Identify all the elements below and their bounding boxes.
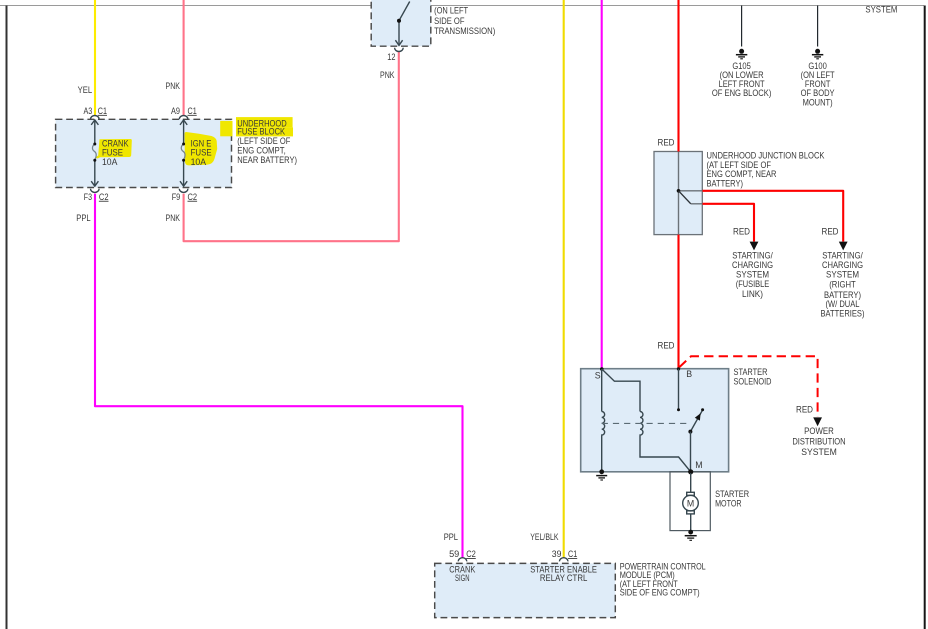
- red feed to starting/charging right battery: [679, 190, 703, 192]
- highlight underhood: [236, 117, 293, 127]
- red dashed feed to power distribution: [679, 356, 817, 417]
- svg-text:STARTING/: STARTING/: [822, 250, 863, 260]
- wire YEL/BLK to PCM 39: [563, 0, 565, 558]
- fuse block box: [56, 119, 232, 187]
- svg-text:DISTRIBUTION: DISTRIBUTION: [792, 437, 845, 447]
- svg-text:(ON LEFT: (ON LEFT: [434, 5, 469, 15]
- starter motor box: [670, 472, 710, 531]
- blade arrowhead: [695, 413, 701, 420]
- svg-text:OF ENG BLOCK): OF ENG BLOCK): [712, 88, 772, 98]
- hold-in coil lead: [601, 369, 603, 412]
- motor ground: [685, 530, 697, 541]
- svg-text:BATTERY): BATTERY): [707, 178, 744, 188]
- switch pivot dot: [397, 19, 401, 23]
- svg-text:YEL: YEL: [78, 85, 93, 95]
- junction diagonal tap: [679, 191, 691, 204]
- park/neutral switch internals: [395, 2, 409, 46]
- arrow to power distribution: [813, 417, 822, 426]
- highlight crank fuse: [96, 139, 132, 158]
- fuse CRANK: [91, 120, 98, 186]
- S terminal dot: [600, 367, 604, 371]
- svg-text:RED: RED: [733, 226, 750, 236]
- svg-text:PPL: PPL: [76, 213, 90, 223]
- svg-text:C1: C1: [568, 549, 577, 559]
- svg-text:RED: RED: [658, 341, 675, 351]
- underhood junction block box: [654, 152, 702, 235]
- svg-text:59: 59: [449, 549, 459, 559]
- pull-in coil branch: [602, 369, 640, 412]
- brush lower: [687, 511, 695, 514]
- svg-text:S: S: [595, 370, 601, 380]
- svg-text:C2: C2: [466, 549, 476, 559]
- svg-text:SIDE OF ENG COMPT): SIDE OF ENG COMPT): [620, 588, 700, 598]
- svg-text:B: B: [686, 369, 692, 379]
- connector arc A3: [91, 115, 100, 119]
- svg-text:SYSTEM: SYSTEM: [826, 269, 859, 279]
- moving contact blade: [690, 410, 702, 431]
- svg-text:LINK): LINK): [742, 289, 763, 299]
- park/neutral position switch box (on left side of transmission): [371, 0, 431, 46]
- motor lead lower: [690, 514, 692, 531]
- M terminal dot: [688, 469, 693, 474]
- wire PPL from F3 to PCM 59: [95, 194, 463, 558]
- coil 1 ground lead: [601, 435, 603, 470]
- ground wire G100: [817, 6, 819, 47]
- svg-text:12: 12: [387, 52, 395, 62]
- brush upper: [687, 492, 695, 495]
- svg-text:C1: C1: [188, 106, 197, 116]
- wire RED battery feed to solenoid B: [677, 0, 679, 152]
- connector arc pin 12: [395, 48, 404, 52]
- svg-text:PNK: PNK: [166, 213, 181, 223]
- motor circle: [683, 495, 699, 511]
- svg-text:(FUSIBLE: (FUSIBLE: [736, 279, 770, 289]
- svg-text:(LEFT SIDE OF: (LEFT SIDE OF: [237, 136, 291, 146]
- arrow to right battery: [839, 242, 848, 251]
- connector arc PCM 59: [458, 558, 467, 562]
- svg-text:C2: C2: [99, 192, 109, 202]
- svg-text:STARTER: STARTER: [734, 367, 768, 377]
- svg-text:SIDE OF: SIDE OF: [434, 16, 465, 26]
- ground G105 symbol: [736, 49, 747, 59]
- blade tip dot: [701, 408, 704, 411]
- svg-text:C1: C1: [98, 106, 107, 116]
- svg-text:RELAY CTRL: RELAY CTRL: [540, 573, 587, 583]
- wire PPL to solenoid S: [601, 0, 603, 369]
- wire PNK vertical to A9: [183, 0, 185, 115]
- page top rule: [0, 5, 924, 7]
- svg-text:MOUNT): MOUNT): [803, 97, 833, 107]
- connector arc F9: [179, 189, 188, 193]
- svg-text:A3: A3: [84, 106, 93, 116]
- connector arc A9: [179, 116, 188, 120]
- svg-text:(W/ DUAL: (W/ DUAL: [826, 299, 860, 309]
- B terminal dot: [677, 367, 680, 370]
- blade pivot dot: [688, 430, 692, 434]
- page left border: [6, 6, 8, 629]
- switch blade: [399, 2, 410, 21]
- svg-text:STARTING/: STARTING/: [732, 250, 773, 260]
- svg-text:39: 39: [552, 549, 562, 559]
- motor lead upper: [690, 473, 692, 492]
- coil 2 lower lead: [640, 435, 691, 471]
- svg-text:M: M: [687, 498, 694, 508]
- svg-text:YEL/BLK: YEL/BLK: [530, 532, 558, 542]
- svg-text:NEAR BATTERY): NEAR BATTERY): [237, 155, 297, 165]
- svg-text:BATTERIES): BATTERIES): [821, 309, 865, 319]
- svg-text:POWER: POWER: [804, 426, 834, 436]
- svg-text:(RIGHT: (RIGHT: [829, 279, 856, 289]
- svg-text:MOTOR: MOTOR: [715, 499, 742, 509]
- svg-text:10A: 10A: [191, 157, 207, 167]
- wire PNK from F9 to pin 12: [184, 52, 399, 242]
- svg-text:PNK: PNK: [380, 70, 395, 80]
- svg-text:PNK: PNK: [166, 81, 181, 91]
- solenoid ground: [596, 469, 607, 480]
- svg-text:SYSTEM: SYSTEM: [736, 269, 769, 279]
- svg-text:PPL: PPL: [444, 532, 458, 542]
- svg-text:RED: RED: [796, 405, 813, 415]
- highlighter marks: [96, 117, 293, 165]
- svg-text:F3: F3: [84, 192, 92, 202]
- PCM box: [435, 563, 616, 617]
- svg-text:A9: A9: [171, 106, 180, 116]
- svg-text:SIGN: SIGN: [455, 573, 470, 583]
- svg-text:CHARGING: CHARGING: [732, 260, 773, 270]
- svg-text:SOLENOID: SOLENOID: [734, 377, 772, 387]
- ground wire G105: [741, 6, 743, 47]
- svg-text:RED: RED: [822, 226, 839, 236]
- svg-text:F9: F9: [172, 192, 181, 202]
- coil 1: [602, 412, 605, 436]
- fuse IGN E: [180, 120, 187, 186]
- connector arc PCM 39: [559, 558, 568, 562]
- ground G100 symbol: [812, 49, 823, 59]
- svg-text:SYSTEM: SYSTEM: [801, 447, 837, 457]
- svg-text:FUSE: FUSE: [102, 147, 123, 157]
- svg-text:C2: C2: [188, 192, 198, 202]
- svg-text:STARTER: STARTER: [715, 489, 749, 499]
- svg-text:M: M: [695, 460, 702, 470]
- svg-text:RED: RED: [658, 137, 675, 147]
- mechanical link dashed: [602, 422, 689, 424]
- connector arc F3: [91, 189, 100, 193]
- svg-text:FUSE: FUSE: [191, 147, 212, 157]
- wire YEL vertical to A3: [94, 0, 96, 115]
- junction dot: [677, 189, 681, 193]
- arrow to fusible link: [750, 242, 759, 251]
- highlight ign e fuse: [185, 132, 218, 165]
- svg-text:CHARGING: CHARGING: [822, 260, 863, 270]
- highlight fuse block line: [236, 127, 293, 136]
- svg-text:TRANSMISSION): TRANSMISSION): [434, 26, 495, 36]
- coil 2: [640, 412, 643, 436]
- page right border: [924, 6, 926, 629]
- junction block internal conductor: [678, 152, 680, 235]
- starter solenoid box: [581, 369, 729, 472]
- red feed to starting/charging fusible link: [703, 204, 755, 242]
- svg-text:SYSTEM: SYSTEM: [865, 5, 897, 15]
- wire RED junction block to solenoid B: [677, 235, 679, 369]
- svg-text:10A: 10A: [102, 157, 118, 167]
- switch arrowhead: [395, 40, 402, 45]
- switch pole wire: [398, 21, 400, 44]
- highlight corner patch: [220, 121, 232, 136]
- B contact lead: [678, 369, 680, 409]
- switch to M lead: [690, 432, 692, 472]
- B contact dot: [677, 408, 680, 411]
